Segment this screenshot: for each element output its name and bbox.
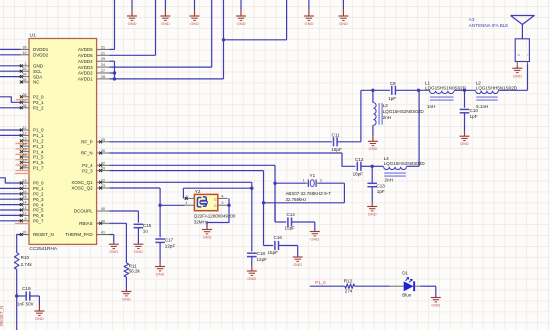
svg-text:R12: R12 bbox=[344, 278, 353, 283]
svg-text:9: 9 bbox=[25, 217, 27, 221]
svg-text:40: 40 bbox=[101, 207, 105, 211]
svg-text:1: 1 bbox=[25, 62, 27, 66]
svg-text:SDA: SDA bbox=[33, 74, 42, 79]
svg-text:RF_N: RF_N bbox=[81, 151, 93, 156]
svg-text:17: 17 bbox=[23, 158, 27, 162]
svg-text:GND: GND bbox=[513, 73, 522, 78]
svg-text:13: 13 bbox=[23, 137, 27, 141]
svg-text:P1_0: P1_0 bbox=[315, 280, 326, 285]
svg-text:DCOUPL: DCOUPL bbox=[74, 209, 93, 214]
svg-text:39: 39 bbox=[23, 45, 27, 49]
svg-text:12pF: 12pF bbox=[257, 257, 268, 262]
svg-text:GND: GND bbox=[203, 234, 212, 239]
svg-text:AVDD2: AVDD2 bbox=[78, 71, 93, 76]
svg-text:AVDD4: AVDD4 bbox=[78, 59, 93, 64]
svg-text:P0_3: P0_3 bbox=[33, 197, 44, 202]
svg-text:274: 274 bbox=[345, 289, 353, 294]
svg-text:16: 16 bbox=[23, 153, 27, 157]
svg-text:LQG15HS1N0S02D: LQG15HS1N0S02D bbox=[425, 85, 467, 90]
svg-text:C17: C17 bbox=[165, 238, 174, 243]
svg-text:SCL: SCL bbox=[33, 69, 42, 74]
svg-text:C: C bbox=[214, 197, 217, 201]
svg-text:GND: GND bbox=[368, 211, 377, 216]
svg-text:34: 34 bbox=[23, 73, 27, 77]
svg-text:RF_P: RF_P bbox=[81, 140, 93, 145]
svg-text:C15: C15 bbox=[143, 223, 152, 228]
svg-text:21: 21 bbox=[101, 51, 105, 55]
svg-text:DVDD1: DVDD1 bbox=[33, 47, 49, 52]
svg-text:C14: C14 bbox=[286, 212, 295, 217]
svg-text:18pF: 18pF bbox=[331, 147, 342, 152]
svg-text:DVDD2: DVDD2 bbox=[33, 53, 49, 58]
svg-text:GND: GND bbox=[293, 262, 302, 267]
svg-text:L3: L3 bbox=[383, 103, 389, 108]
svg-text:2nH: 2nH bbox=[383, 115, 391, 120]
svg-text:1pF: 1pF bbox=[470, 114, 478, 119]
svg-text:R11: R11 bbox=[129, 264, 138, 269]
svg-text:18pF: 18pF bbox=[353, 172, 364, 177]
svg-text:P0_1: P0_1 bbox=[33, 186, 44, 191]
svg-text:5.1nH: 5.1nH bbox=[476, 104, 488, 109]
svg-text:A3: A3 bbox=[469, 17, 475, 22]
svg-text:12pF: 12pF bbox=[165, 244, 176, 249]
svg-text:C19: C19 bbox=[22, 286, 31, 291]
svg-text:1pF: 1pF bbox=[388, 96, 396, 101]
svg-text:P1_5: P1_5 bbox=[33, 155, 44, 160]
svg-text:P2_2: P2_2 bbox=[33, 106, 44, 111]
svg-text:GND: GND bbox=[122, 296, 131, 301]
svg-text:P1_1: P1_1 bbox=[33, 133, 44, 138]
svg-text:P1_3: P1_3 bbox=[33, 144, 44, 149]
svg-text:AVDD5: AVDD5 bbox=[78, 53, 93, 58]
svg-text:14: 14 bbox=[23, 142, 27, 146]
svg-text:ABS07-32.768KHZ-9-T: ABS07-32.768KHZ-9-T bbox=[286, 191, 332, 196]
svg-text:P2_0: P2_0 bbox=[33, 95, 44, 100]
svg-text:P2_1: P2_1 bbox=[33, 100, 44, 105]
svg-text:56.2k: 56.2k bbox=[129, 269, 141, 274]
svg-text:19: 19 bbox=[23, 179, 27, 183]
svg-text:38: 38 bbox=[23, 93, 27, 97]
svg-text:2.74k: 2.74k bbox=[21, 262, 33, 267]
svg-text:15: 15 bbox=[23, 195, 27, 199]
svg-text:4: 4 bbox=[222, 194, 224, 198]
svg-text:AVDD3: AVDD3 bbox=[78, 65, 93, 70]
svg-text:13: 13 bbox=[23, 206, 27, 210]
svg-text:11: 11 bbox=[23, 126, 27, 130]
svg-text:1nF 50V: 1nF 50V bbox=[17, 302, 34, 307]
svg-text:C11: C11 bbox=[332, 133, 341, 138]
svg-text:C18: C18 bbox=[257, 251, 266, 256]
svg-text:32.768kHz: 32.768kHz bbox=[286, 197, 307, 202]
svg-text:P1_7: P1_7 bbox=[33, 166, 44, 171]
svg-text:16: 16 bbox=[23, 190, 27, 194]
svg-text:GND: GND bbox=[128, 21, 137, 26]
svg-text:GND: GND bbox=[190, 21, 199, 26]
svg-text:15pF: 15pF bbox=[285, 225, 296, 230]
svg-text:33: 33 bbox=[23, 67, 27, 71]
svg-text:L2: L2 bbox=[476, 80, 482, 85]
svg-text:1: 1 bbox=[186, 201, 188, 205]
svg-text:P0_2: P0_2 bbox=[33, 192, 44, 197]
svg-text:GND: GND bbox=[237, 21, 246, 26]
svg-text:1: 1 bbox=[303, 179, 305, 183]
svg-text:ANTENNA IFA BLE: ANTENNA IFA BLE bbox=[469, 23, 509, 28]
svg-text:28: 28 bbox=[101, 75, 105, 79]
svg-text:C9: C9 bbox=[390, 81, 396, 86]
svg-text:P1_2: P1_2 bbox=[33, 139, 44, 144]
svg-text:XOSC_Q2: XOSC_Q2 bbox=[71, 186, 93, 191]
svg-text:P1_0: P1_0 bbox=[33, 128, 44, 133]
svg-text:1pF: 1pF bbox=[377, 189, 385, 194]
svg-text:1: 1 bbox=[527, 54, 531, 56]
svg-text:29: 29 bbox=[101, 57, 105, 61]
svg-text:P1_4: P1_4 bbox=[33, 149, 44, 154]
svg-text:GND: GND bbox=[35, 316, 44, 321]
svg-text:15: 15 bbox=[23, 148, 27, 152]
svg-text:D1: D1 bbox=[402, 271, 408, 276]
svg-text:GND: GND bbox=[368, 146, 377, 151]
svg-text:U1: U1 bbox=[30, 33, 36, 39]
svg-text:P0_0: P0_0 bbox=[33, 181, 44, 186]
svg-text:GND: GND bbox=[460, 141, 469, 146]
svg-text:RESET_N: RESET_N bbox=[33, 232, 54, 237]
svg-text:10: 10 bbox=[23, 51, 27, 55]
svg-text:2: 2 bbox=[517, 54, 521, 56]
svg-text:P0_5: P0_5 bbox=[33, 208, 44, 213]
svg-text:P2_4: P2_4 bbox=[82, 163, 93, 168]
svg-text:14: 14 bbox=[23, 201, 27, 205]
svg-text:1u: 1u bbox=[143, 229, 149, 234]
svg-text:P0_4: P0_4 bbox=[33, 202, 44, 207]
svg-text:L1: L1 bbox=[425, 80, 431, 85]
svg-text:GND: GND bbox=[33, 64, 44, 69]
svg-text:15pF: 15pF bbox=[268, 250, 279, 255]
svg-text:Blue: Blue bbox=[402, 293, 412, 298]
svg-text:C13: C13 bbox=[376, 183, 385, 188]
svg-text:2: 2 bbox=[222, 201, 224, 205]
svg-text:24: 24 bbox=[101, 63, 105, 67]
svg-text:AVDD1: AVDD1 bbox=[78, 77, 93, 82]
svg-text:17: 17 bbox=[23, 184, 27, 188]
svg-text:C10: C10 bbox=[470, 108, 479, 113]
svg-text:C12: C12 bbox=[355, 157, 364, 162]
svg-text:L4: L4 bbox=[384, 156, 390, 161]
svg-text:2: 2 bbox=[320, 179, 322, 183]
svg-text:GND: GND bbox=[310, 236, 319, 241]
svg-text:1nH: 1nH bbox=[427, 104, 435, 109]
svg-text:GND: GND bbox=[161, 21, 170, 26]
svg-text:41: 41 bbox=[101, 231, 105, 235]
svg-text:P0_7: P0_7 bbox=[33, 219, 44, 224]
svg-text:36: 36 bbox=[23, 104, 27, 108]
svg-text:Y2: Y2 bbox=[195, 189, 201, 194]
svg-text:C: C bbox=[214, 204, 217, 208]
svg-text:R10: R10 bbox=[21, 255, 30, 260]
svg-text:35: 35 bbox=[23, 78, 27, 82]
svg-text:P1_6: P1_6 bbox=[33, 160, 44, 165]
svg-text:C16: C16 bbox=[274, 235, 283, 240]
svg-text:RESET_N: RESET_N bbox=[0, 306, 4, 326]
svg-text:AVDD6: AVDD6 bbox=[78, 47, 93, 52]
svg-text:Y1: Y1 bbox=[310, 173, 316, 178]
svg-text:GND: GND bbox=[134, 249, 143, 254]
svg-text:GND: GND bbox=[339, 21, 348, 26]
svg-text:GND: GND bbox=[431, 302, 440, 307]
svg-text:GND: GND bbox=[109, 249, 118, 254]
svg-text:CC2541RHA: CC2541RHA bbox=[29, 246, 58, 252]
svg-text:31: 31 bbox=[101, 45, 105, 49]
svg-text:27: 27 bbox=[101, 69, 105, 73]
svg-text:RBIAS: RBIAS bbox=[79, 221, 93, 226]
svg-text:GND: GND bbox=[247, 276, 256, 281]
svg-text:GND: GND bbox=[156, 271, 165, 276]
svg-text:NC: NC bbox=[33, 80, 40, 85]
svg-text:12: 12 bbox=[23, 131, 27, 135]
svg-text:LQG15HH5N1S02D: LQG15HH5N1S02D bbox=[476, 85, 518, 90]
svg-text:P0_6: P0_6 bbox=[33, 213, 44, 218]
svg-text:P2_3: P2_3 bbox=[82, 168, 93, 173]
svg-text:12: 12 bbox=[23, 211, 27, 215]
svg-text:2nH: 2nH bbox=[385, 177, 393, 182]
svg-text:THERM_PAD: THERM_PAD bbox=[65, 232, 93, 237]
svg-text:20: 20 bbox=[23, 231, 27, 235]
svg-text:LQG15HS2N0S02D: LQG15HS2N0S02D bbox=[383, 109, 425, 114]
svg-text:XOSC_Q1: XOSC_Q1 bbox=[71, 180, 93, 185]
svg-text:GND: GND bbox=[304, 21, 313, 26]
svg-text:18: 18 bbox=[23, 164, 27, 168]
svg-text:LQG15HS2N0S02D: LQG15HS2N0S02D bbox=[384, 161, 426, 166]
